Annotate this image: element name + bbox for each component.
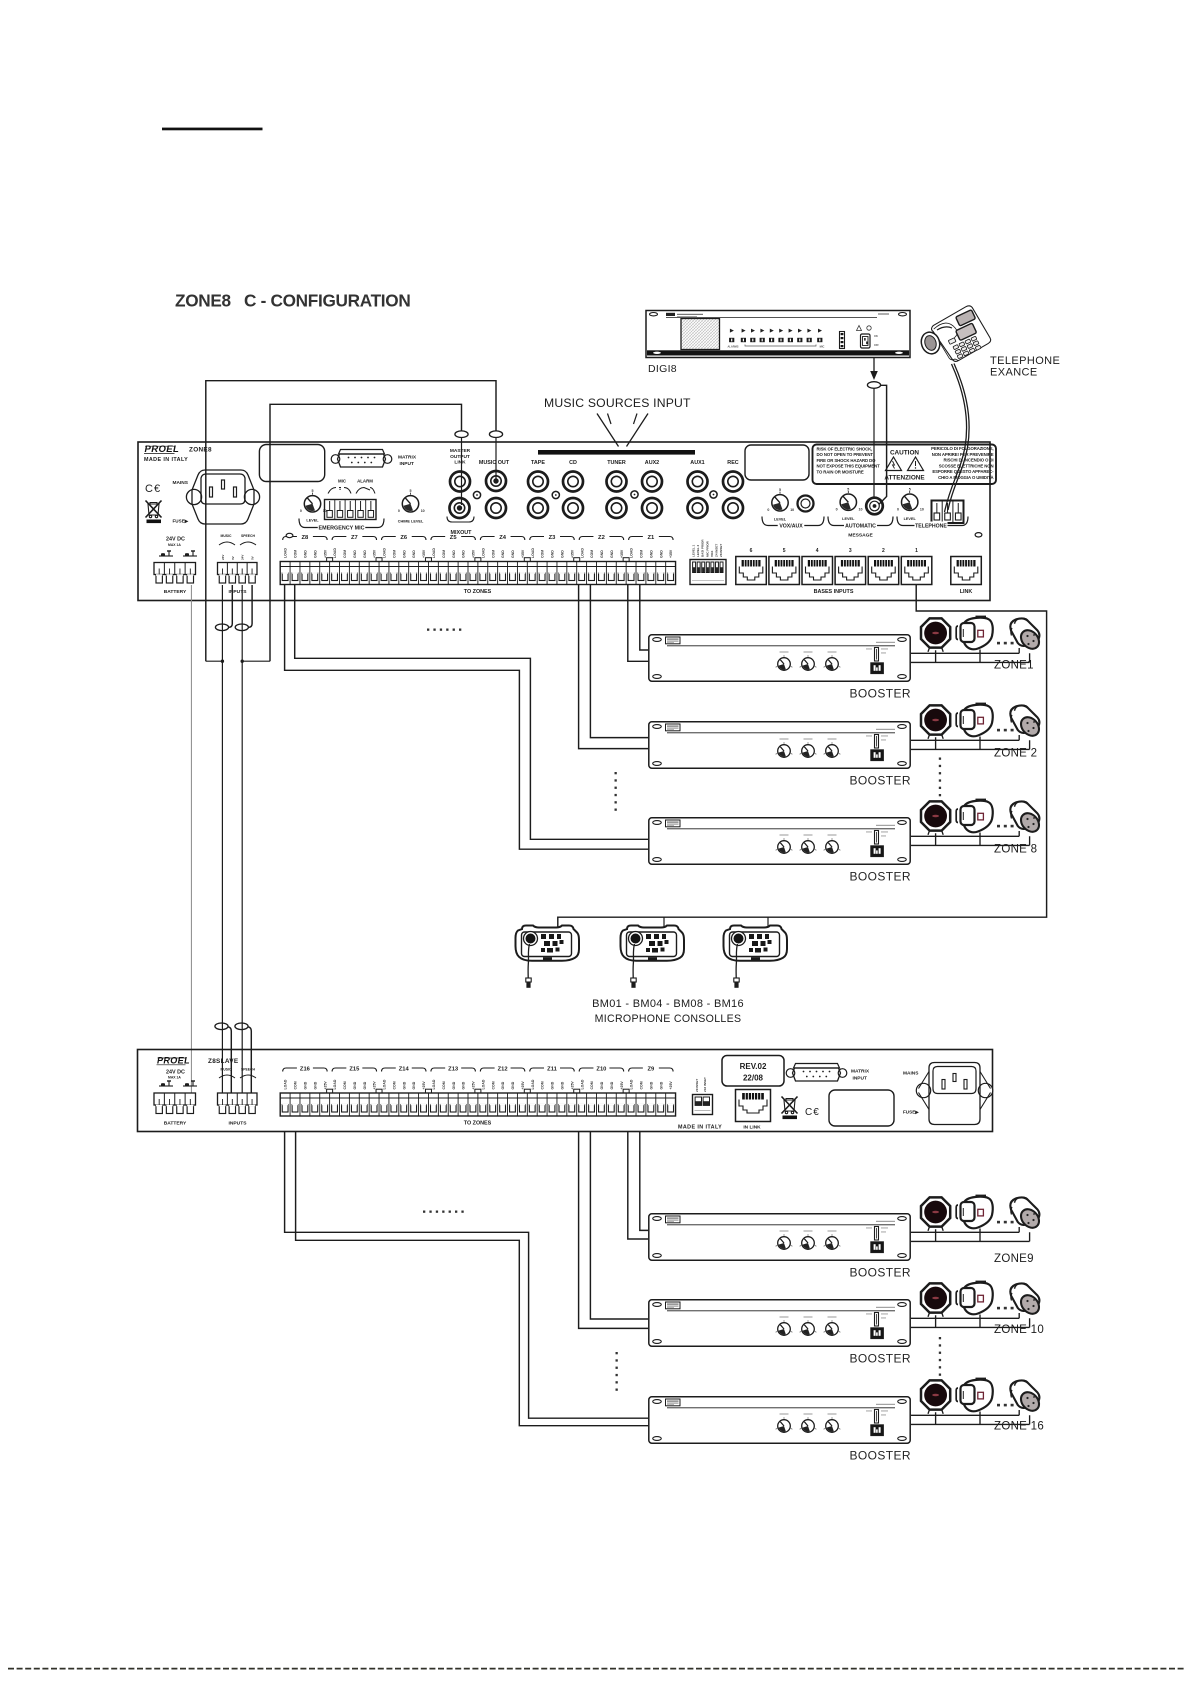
svg-text:EXANCE: EXANCE	[990, 367, 1038, 379]
svg-text:GND: GND	[462, 1081, 466, 1089]
svg-text:COM: COM	[392, 1081, 396, 1089]
svg-text:RISK OF ELECTRIC SHOCK,: RISK OF ELECTRIC SHOCK,	[817, 447, 873, 452]
svg-text:LOAD: LOAD	[432, 1079, 436, 1089]
svg-text:5: 5	[410, 489, 412, 493]
svg-text:5: 5	[312, 489, 314, 493]
svg-text:BATTERY: BATTERY	[164, 1121, 187, 1127]
svg-text:GND: GND	[412, 550, 416, 558]
svg-text:Z1: Z1	[647, 535, 655, 541]
svg-text:LOAD: LOAD	[630, 1079, 634, 1089]
svg-text:+25V: +25V	[521, 1081, 525, 1090]
svg-text:BOOSTER: BOOSTER	[850, 1449, 911, 1463]
svg-text:TUNER: TUNER	[607, 460, 626, 466]
svg-text:BOOSTER: BOOSTER	[850, 1266, 911, 1280]
svg-text:GND: GND	[412, 1081, 416, 1089]
svg-text:Z4 INSET: Z4 INSET	[715, 544, 719, 557]
svg-text:0: 0	[300, 509, 302, 513]
svg-text:GND: GND	[600, 550, 604, 558]
svg-text:ZONE 16: ZONE 16	[994, 1421, 1044, 1433]
svg-text:LEVEL 1: LEVEL 1	[692, 545, 696, 557]
svg-text:10: 10	[790, 508, 794, 512]
svg-text:GND: GND	[501, 550, 505, 558]
svg-text:0: 0	[836, 507, 838, 511]
svg-text:MAINS: MAINS	[903, 1071, 919, 1077]
svg-text:LOAD: LOAD	[284, 1079, 288, 1089]
svg-text:SPEECH: SPEECH	[241, 534, 255, 538]
svg-text:C€: C€	[805, 1107, 820, 1118]
svg-text:Z12: Z12	[498, 1067, 508, 1073]
svg-text:TO ZONES: TO ZONES	[464, 589, 492, 595]
svg-text:FUSE▶: FUSE▶	[903, 1110, 920, 1115]
svg-text:NON APRIRE! PER PREVENIRE: NON APRIRE! PER PREVENIRE	[932, 452, 994, 457]
svg-text:INPUT: INPUT	[853, 1075, 867, 1081]
svg-text:BOOSTER: BOOSTER	[850, 687, 911, 701]
svg-text:+25V: +25V	[669, 1081, 673, 1090]
svg-text:Z10: Z10	[596, 1067, 606, 1073]
svg-text:Z9 INSET: Z9 INSET	[695, 1079, 699, 1092]
svg-text:+35V: +35V	[521, 549, 525, 558]
svg-text:COM: COM	[640, 1081, 644, 1089]
svg-text:MICROPHONE CONSOLLES: MICROPHONE CONSOLLES	[595, 1013, 742, 1025]
svg-text:LEVEL 2: LEVEL 2	[696, 545, 700, 557]
svg-text:+25V: +25V	[570, 1081, 574, 1090]
svg-text:24V DC: 24V DC	[166, 537, 185, 543]
svg-text:+35V: +35V	[323, 549, 327, 558]
svg-text:COM: COM	[640, 550, 644, 558]
svg-text:COM: COM	[491, 1081, 495, 1089]
svg-text:ALARMS: ALARMS	[727, 345, 738, 349]
svg-text:COM: COM	[491, 550, 495, 558]
svg-text:TO RAIN OR MOISTURE: TO RAIN OR MOISTURE	[817, 469, 864, 474]
svg-text:IN LINK: IN LINK	[743, 1125, 761, 1131]
svg-text:EMERGENCY MIC: EMERGENCY MIC	[318, 526, 364, 532]
svg-text:MIC: MIC	[820, 345, 825, 349]
svg-text:MAX 1A: MAX 1A	[168, 543, 181, 547]
svg-text:LOAD: LOAD	[333, 548, 337, 558]
svg-text:LOAD: LOAD	[333, 1079, 337, 1089]
svg-text:INPUT: INPUT	[400, 461, 414, 467]
svg-text:GND: GND	[353, 1081, 357, 1089]
svg-text:BOOSTER: BOOSTER	[850, 870, 911, 884]
svg-text:INPUTS: INPUTS	[229, 1121, 248, 1127]
svg-text:COM: COM	[343, 1081, 347, 1089]
svg-text:+35V: +35V	[422, 549, 426, 558]
svg-text:CHIME LEVEL: CHIME LEVEL	[398, 520, 424, 524]
svg-text:GND: GND	[659, 1081, 663, 1089]
svg-text:GND: GND	[551, 550, 555, 558]
svg-text:BATTERY: BATTERY	[164, 589, 187, 595]
svg-text:ALARM: ALARM	[357, 478, 373, 483]
svg-text:22/08: 22/08	[743, 1074, 764, 1083]
svg-text:Z8: Z8	[302, 535, 310, 541]
svg-text:LEVEL: LEVEL	[306, 519, 319, 523]
svg-text:0: 0	[398, 509, 400, 513]
svg-text:ZONE8: ZONE8	[189, 447, 212, 454]
svg-text:SPEECH: SPEECH	[241, 1068, 255, 1072]
svg-text:Z8 INSET: Z8 INSET	[719, 544, 723, 557]
svg-text:GND: GND	[560, 1081, 564, 1089]
svg-text:MUSIC SOURCES INPUT: MUSIC SOURCES INPUT	[544, 396, 691, 410]
svg-text:ZONE1: ZONE1	[994, 660, 1034, 672]
svg-text:ESPORRE QUESTO APPAREC-: ESPORRE QUESTO APPAREC-	[932, 469, 994, 474]
svg-text:MAINS: MAINS	[173, 480, 189, 486]
svg-text:COM: COM	[541, 550, 545, 558]
svg-text:ZONE 8: ZONE 8	[994, 844, 1037, 856]
svg-text:GND: GND	[610, 550, 614, 558]
svg-text:COM: COM	[392, 550, 396, 558]
svg-text:BOOSTER: BOOSTER	[850, 774, 911, 788]
svg-text:2: 2	[882, 548, 885, 554]
svg-text:+35V: +35V	[472, 549, 476, 558]
svg-text:GND: GND	[313, 550, 317, 558]
svg-text:1: 1	[915, 548, 918, 554]
svg-text:+25V: +25V	[323, 1081, 327, 1090]
svg-text:TELEPHONE: TELEPHONE	[990, 355, 1060, 367]
svg-text:GND: GND	[313, 1081, 317, 1089]
svg-text:LOAD: LOAD	[481, 548, 485, 558]
svg-text:LOAD: LOAD	[481, 1079, 485, 1089]
svg-text:6: 6	[750, 548, 753, 554]
svg-text:ZONE 2: ZONE 2	[994, 748, 1037, 760]
svg-text:Z7: Z7	[351, 535, 358, 541]
svg-text:LOAD: LOAD	[630, 548, 634, 558]
svg-text:MUSIC: MUSIC	[221, 1068, 232, 1072]
svg-text:DIGI8: DIGI8	[648, 363, 677, 375]
svg-text:MADE IN ITALY: MADE IN ITALY	[678, 1125, 722, 1131]
svg-text:Z16 INSET: Z16 INSET	[703, 1077, 707, 1092]
svg-text:GND: GND	[501, 1081, 505, 1089]
svg-text:GND: GND	[304, 1081, 308, 1089]
svg-text:BASES INPUTS: BASES INPUTS	[814, 589, 854, 595]
svg-text:0: 0	[897, 507, 899, 511]
svg-text:+25V: +25V	[472, 1081, 476, 1090]
svg-text:LOAD: LOAD	[531, 1079, 535, 1089]
svg-text:AUTOMATIC: AUTOMATIC	[845, 524, 876, 530]
svg-text:MUSIC: MUSIC	[221, 534, 232, 538]
svg-text:PROEL: PROEL	[157, 1056, 190, 1066]
svg-text:MIC: MIC	[338, 478, 347, 483]
svg-text:AUX2: AUX2	[645, 460, 659, 466]
svg-text:+35V: +35V	[373, 549, 377, 558]
svg-text:MAX 1A: MAX 1A	[168, 1076, 181, 1080]
svg-text:LOAD: LOAD	[284, 548, 288, 558]
svg-text:LOAD: LOAD	[432, 548, 436, 558]
svg-text:TAPE: TAPE	[531, 460, 545, 466]
svg-text:ZONE9: ZONE9	[994, 1253, 1034, 1265]
svg-text:10: 10	[859, 507, 863, 511]
svg-text:GND: GND	[304, 550, 308, 558]
svg-text:COM: COM	[590, 550, 594, 558]
svg-text:+25V: +25V	[373, 1081, 377, 1090]
svg-text:24V DC: 24V DC	[166, 1070, 185, 1076]
svg-text:MASTER: MASTER	[450, 448, 471, 454]
svg-text:GND: GND	[363, 550, 367, 558]
svg-text:GND: GND	[353, 550, 357, 558]
svg-text:+25V: +25V	[620, 1081, 624, 1090]
svg-text:Z16: Z16	[300, 1067, 311, 1073]
svg-text:5: 5	[779, 488, 781, 492]
svg-text:4: 4	[816, 548, 819, 554]
svg-text:LOAD: LOAD	[383, 1079, 387, 1089]
svg-text:NOT EXPOSE THIS EQUIPMENT: NOT EXPOSE THIS EQUIPMENT	[817, 464, 881, 469]
svg-text:CAUTION: CAUTION	[890, 450, 919, 457]
svg-text:5: 5	[847, 488, 849, 492]
svg-text:LEVEL: LEVEL	[842, 517, 855, 521]
svg-text:LOAD: LOAD	[383, 548, 387, 558]
svg-text:Z14: Z14	[399, 1067, 410, 1073]
svg-text:BOOSTER: BOOSTER	[850, 1352, 911, 1366]
svg-text:LEVEL: LEVEL	[904, 517, 917, 521]
svg-text:+25V: +25V	[422, 1081, 426, 1090]
svg-text:GND: GND	[610, 1081, 614, 1089]
svg-text:BASI PRIOR: BASI PRIOR	[701, 539, 705, 557]
svg-text:INPUTS: INPUTS	[229, 589, 248, 595]
svg-text:COM: COM	[343, 550, 347, 558]
svg-text:5: 5	[783, 548, 786, 554]
svg-text:LINK: LINK	[454, 460, 466, 466]
svg-text:VOX: VOX	[710, 551, 714, 557]
svg-text:LOAD: LOAD	[580, 1079, 584, 1089]
svg-text:ZONE 10: ZONE 10	[994, 1324, 1044, 1336]
svg-text:+35V: +35V	[669, 549, 673, 558]
svg-text:GND: GND	[402, 1081, 406, 1089]
svg-text:MATRIX: MATRIX	[851, 1069, 870, 1075]
svg-text:LOAD: LOAD	[531, 548, 535, 558]
svg-text:CD: CD	[569, 460, 577, 466]
svg-text:GND: GND	[462, 550, 466, 558]
svg-text:COM: COM	[442, 1081, 446, 1089]
svg-text:+35V: +35V	[620, 549, 624, 558]
svg-text:GND: GND	[452, 1081, 456, 1089]
svg-text:FIRE OR SHOCK HAZARD DO: FIRE OR SHOCK HAZARD DO	[817, 458, 877, 463]
svg-text:COM: COM	[294, 550, 298, 558]
svg-text:MATRIX: MATRIX	[398, 455, 417, 461]
svg-text:ATTENZIONE: ATTENZIONE	[884, 475, 925, 482]
svg-text:MIXOUT: MIXOUT	[451, 530, 473, 536]
svg-text:GND: GND	[649, 1081, 653, 1089]
svg-text:3: 3	[849, 548, 852, 554]
svg-text:Z8SLAVE: Z8SLAVE	[208, 1058, 239, 1065]
svg-text:GND: GND	[363, 1081, 367, 1089]
svg-text:SCOSSE ELETTRICHE NON: SCOSSE ELETTRICHE NON	[939, 463, 994, 468]
svg-text:COM: COM	[590, 1081, 594, 1089]
svg-text:REC: REC	[727, 460, 738, 466]
svg-text:REV.02: REV.02	[740, 1062, 767, 1071]
svg-text:10: 10	[421, 509, 425, 513]
svg-text:ZONE8C - CONFIGURATION: ZONE8C - CONFIGURATION	[175, 291, 410, 311]
svg-text:Z3: Z3	[549, 535, 557, 541]
svg-text:LINK: LINK	[960, 589, 973, 595]
svg-text:ON: ON	[874, 335, 878, 338]
svg-text:Z9: Z9	[647, 1067, 655, 1073]
svg-text:GND: GND	[452, 550, 456, 558]
svg-text:TELEPHONE: TELEPHONE	[915, 524, 947, 530]
svg-text:0V: 0V	[231, 556, 235, 560]
svg-text:VOX/AUX: VOX/AUX	[779, 524, 803, 530]
svg-text:+35V: +35V	[570, 549, 574, 558]
svg-text:FUSE▶: FUSE▶	[173, 519, 190, 524]
svg-text:Z11: Z11	[547, 1067, 557, 1073]
svg-text:COM: COM	[442, 550, 446, 558]
svg-text:Z13: Z13	[448, 1067, 459, 1073]
svg-text:MIC PRIOR: MIC PRIOR	[705, 540, 709, 557]
svg-text:0V: 0V	[251, 556, 255, 560]
svg-text:OUTPUT: OUTPUT	[450, 454, 470, 460]
svg-text:PERICOLO DI FOLGORAZIONE,: PERICOLO DI FOLGORAZIONE,	[931, 446, 993, 451]
svg-text:GND: GND	[659, 550, 663, 558]
svg-text:GND: GND	[402, 550, 406, 558]
svg-text:TO ZONES: TO ZONES	[464, 1121, 492, 1127]
svg-text:Z15: Z15	[349, 1067, 360, 1073]
svg-text:RISCHI DI INCENDIO O DI: RISCHI DI INCENDIO O DI	[944, 458, 994, 463]
svg-text:COM: COM	[294, 1081, 298, 1089]
svg-text:LEVEL: LEVEL	[774, 518, 787, 522]
svg-text:GND: GND	[511, 550, 515, 558]
svg-text:GND: GND	[551, 1081, 555, 1089]
svg-text:MUSIC OUT: MUSIC OUT	[479, 460, 510, 466]
svg-text:Z4: Z4	[499, 535, 507, 541]
svg-text:+: +	[339, 488, 341, 492]
svg-text:GND: GND	[560, 550, 564, 558]
svg-text:24V: 24V	[221, 555, 225, 560]
svg-text:MESSAGE: MESSAGE	[848, 533, 873, 539]
svg-text:24V: 24V	[241, 555, 245, 560]
svg-text:MADE IN ITALY: MADE IN ITALY	[144, 457, 188, 463]
svg-text:COM: COM	[541, 1081, 545, 1089]
svg-text:AUX1: AUX1	[690, 460, 704, 466]
svg-text:CHIO A PIOGGIA O UMIDITÀ: CHIO A PIOGGIA O UMIDITÀ	[938, 475, 993, 480]
svg-text:GND: GND	[511, 1081, 515, 1089]
svg-text:0: 0	[767, 508, 769, 512]
svg-text:LOAD: LOAD	[580, 548, 584, 558]
svg-text:10: 10	[920, 507, 924, 511]
svg-text:Z6: Z6	[400, 535, 408, 541]
svg-text:GND: GND	[649, 550, 653, 558]
svg-text:OFF: OFF	[874, 344, 879, 347]
svg-text:BM01 - BM04 - BM08 - BM16: BM01 - BM04 - BM08 - BM16	[592, 998, 744, 1010]
svg-text:GND: GND	[600, 1081, 604, 1089]
svg-text:5: 5	[909, 488, 911, 492]
svg-text:Z2: Z2	[598, 535, 605, 541]
svg-text:DO NOT OPEN TO PREVENT: DO NOT OPEN TO PREVENT	[817, 452, 874, 457]
svg-text:C€: C€	[145, 483, 161, 495]
